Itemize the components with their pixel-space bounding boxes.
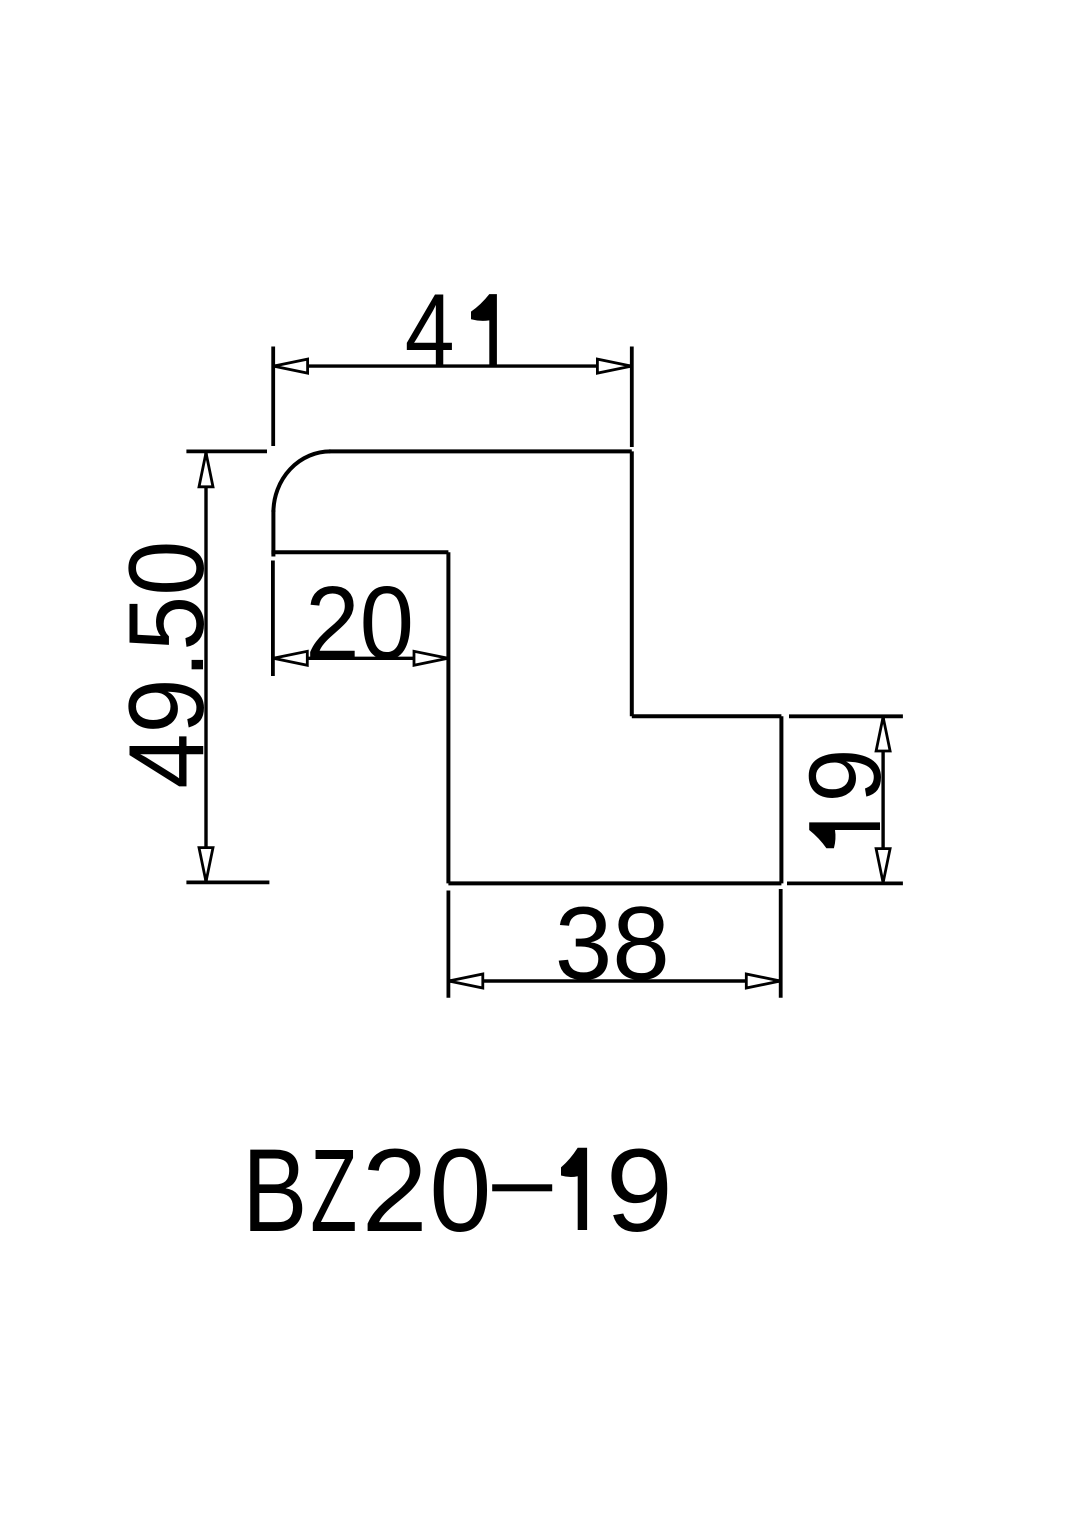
dim 38 right extension line [779, 889, 783, 998]
dim 38 right arrowhead [746, 974, 780, 988]
dim 49.50 bottom extension tick [186, 881, 269, 885]
dim text 19 (rotated): digit 1 custom + digit 9 [788, 749, 902, 849]
profile right lower edge [779, 716, 783, 883]
dim 49.50 top extension tick [186, 449, 267, 453]
dim 41 dimension line [273, 364, 632, 367]
label dash [492, 1184, 552, 1191]
dim 41 left extension line [271, 347, 275, 447]
dim 19 bottom arrowhead [876, 849, 890, 883]
profile step edge [632, 714, 782, 718]
dim 38 dimension line [448, 979, 780, 982]
profile inner vertical edge [446, 552, 450, 883]
svg-text:4: 4 [405, 273, 455, 389]
svg-text:2: 2 [362, 1125, 428, 1257]
dim 20 dimension line [273, 657, 449, 660]
dim 20 left extension line [271, 561, 275, 677]
svg-text:9: 9 [606, 1125, 673, 1257]
dim 20 left arrowhead [273, 651, 307, 665]
dim 49.50 dimension line [204, 452, 207, 882]
dim 41 left arrowhead [274, 359, 308, 373]
svg-text:B: B [242, 1125, 307, 1257]
svg-text:Z: Z [310, 1125, 357, 1257]
profile rounded corner top-left [273, 451, 330, 512]
profile bottom edge [448, 881, 781, 885]
dim 49.50 bottom arrowhead [199, 848, 213, 882]
svg-text:49.50: 49.50 [106, 541, 226, 789]
svg-text:9: 9 [788, 749, 902, 803]
profile top edge [329, 449, 632, 453]
profile inner step top edge [271, 550, 448, 554]
svg-text:0: 0 [429, 1125, 491, 1257]
dim 19 top extension line [789, 714, 903, 718]
svg-text:20: 20 [305, 565, 414, 681]
profile left edge [271, 510, 275, 557]
label char 1 (custom glyph) [561, 1148, 587, 1230]
dim 41 right extension line [630, 347, 634, 448]
dim 38 left extension line [446, 891, 450, 998]
dim 19 top arrowhead [876, 717, 890, 751]
dim 20 right arrowhead [414, 651, 448, 665]
profile right upper edge [630, 451, 634, 716]
dim text 41: digit 1 (custom glyph) [471, 294, 497, 367]
dim 38 left arrowhead [449, 974, 483, 988]
dim 19 dimension line [881, 718, 884, 881]
dim 49.50 top arrowhead [199, 453, 213, 487]
dim 41 right arrowhead [597, 359, 631, 373]
svg-text:38: 38 [555, 886, 670, 1002]
dim 19 bottom extension line [787, 882, 903, 886]
dim text 49.50 (rotated) [106, 541, 226, 789]
